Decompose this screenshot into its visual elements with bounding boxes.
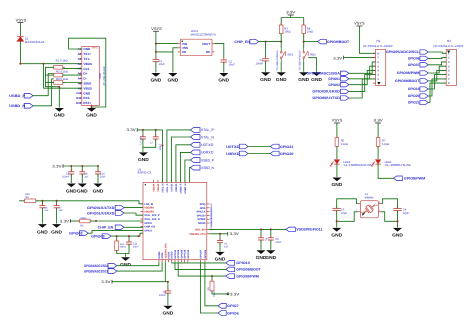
svg-text:A4: A4 xyxy=(78,62,82,66)
svg-text:XTAL_P: XTAL_P xyxy=(166,183,169,192)
svg-text:3.3V: 3.3V xyxy=(286,11,296,15)
svg-text:XTAL_N: XTAL_N xyxy=(201,135,214,139)
svg-text:U0RXD: U0RXD xyxy=(175,183,178,191)
mcu U1 label xyxy=(138,167,207,259)
svg-text:GND: GND xyxy=(392,233,403,238)
port GPIO00/U1TXD (H1) xyxy=(312,96,349,100)
svg-text:GPIO07: GPIO07 xyxy=(199,249,202,258)
svg-text:SBU1: SBU1 xyxy=(83,82,92,86)
svg-text:R9 5.1kΩ: R9 5.1kΩ xyxy=(56,78,68,81)
resistor R3 10k xyxy=(279,23,290,36)
svg-text:CE: CE xyxy=(182,50,186,54)
svg-text:3.3V: 3.3V xyxy=(333,57,343,61)
svg-text:3.3V: 3.3V xyxy=(374,119,384,123)
svg-text:3.3V: 3.3V xyxy=(60,220,70,224)
svg-text:GND: GND xyxy=(77,189,88,194)
svg-text:SHELL: SHELL xyxy=(92,47,100,50)
resistor R8 10k xyxy=(207,276,216,297)
port GPIO01/U1RXD (mcu left) xyxy=(87,211,124,216)
ground (U9) xyxy=(256,250,267,260)
svg-text:USBD_P: USBD_P xyxy=(9,94,26,98)
svg-text:40MHz: 40MHz xyxy=(365,196,374,200)
svg-text:GPIO04/ADC1/SDA: GPIO04/ADC1/SDA xyxy=(306,72,340,76)
ground (U8) xyxy=(77,184,88,194)
svg-text:GND: GND xyxy=(260,77,271,82)
wire XTAL_P to mcu xyxy=(167,130,191,183)
wire GPIO7 row xyxy=(205,262,218,306)
port GPIO04/ADC1/SDA (H1) xyxy=(306,71,349,75)
svg-text:USBD_P: USBD_P xyxy=(179,183,182,193)
port XTAL_N (mcu top) xyxy=(190,135,214,140)
wire GPIO09/BOOT to H2 xyxy=(428,70,446,81)
svg-text:D+: D+ xyxy=(83,72,87,76)
resistor R9 5.1k xyxy=(52,78,69,84)
wire VBUS diode to connector xyxy=(19,41,81,64)
wire GPIO06 to H2 xyxy=(428,57,446,60)
svg-text:GPIO21: GPIO21 xyxy=(408,101,420,105)
svg-text:3.3V: 3.3V xyxy=(230,232,240,236)
svg-text:VBUS: VBUS xyxy=(83,86,92,90)
svg-text:HC-PZ254-8.7L-1X8PZ: HC-PZ254-8.7L-1X8PZ xyxy=(363,45,393,48)
wire R3 to SW1 xyxy=(280,34,282,48)
wire U0RXD link xyxy=(248,153,270,155)
power flag VSYS (H1) xyxy=(354,22,375,54)
svg-text:VDD_SPI: VDD_SPI xyxy=(195,228,206,231)
wire R4 to SW2 xyxy=(303,34,305,48)
svg-text:B11: B11 xyxy=(76,96,81,100)
svg-text:H1: H1 xyxy=(376,39,380,43)
wire resistor commons to ground xyxy=(45,67,60,107)
svg-text:GND: GND xyxy=(37,230,48,235)
wire crystal pin3 to C4 xyxy=(381,199,398,209)
svg-text:LNA_IN: LNA_IN xyxy=(144,203,153,206)
capacitor C7 100nF xyxy=(143,129,162,152)
svg-text:GPIO10: GPIO10 xyxy=(408,87,420,91)
wire U0TXD to mcu xyxy=(176,145,191,183)
led LED2 XL-1608SURC-06 xyxy=(330,160,372,168)
svg-text:3.3V: 3.3V xyxy=(101,280,111,284)
wire SW2 second pole to ground xyxy=(308,58,316,72)
wire VDD3P3_CPU net xyxy=(209,233,227,235)
port GPIO02 (H1) xyxy=(328,83,349,87)
resistor R11 560R xyxy=(115,236,126,253)
wire RTC pin down xyxy=(165,262,169,283)
svg-text:GPIO21: GPIO21 xyxy=(280,145,294,149)
wire GPIO00/U1TXD to H1 xyxy=(349,79,376,98)
svg-text:GND: GND xyxy=(86,113,97,118)
svg-text:TX1-: TX1- xyxy=(83,57,90,61)
svg-text:XTAL_N: XTAL_N xyxy=(161,183,164,192)
svg-text:GPIO8/PWM: GPIO8/PWM xyxy=(404,177,426,181)
svg-text:GND: GND xyxy=(332,182,343,187)
svg-text:10nF: 10nF xyxy=(133,246,139,249)
wire VSS to ground xyxy=(172,52,174,73)
port GPIO21 (link) xyxy=(270,144,293,149)
wire C4 to ground xyxy=(397,211,399,228)
svg-text:R6: R6 xyxy=(80,225,84,228)
svg-text:GPIO17: GPIO17 xyxy=(210,222,213,231)
wire U1RXD to mcu xyxy=(124,213,143,215)
svg-text:TS-1088-AR02016: TS-1088-AR02016 xyxy=(276,50,279,71)
svg-text:SW1: SW1 xyxy=(287,53,294,57)
svg-text:VDD3A: VDD3A xyxy=(152,183,155,191)
svg-text:TS-1088-AR02016: TS-1088-AR02016 xyxy=(299,50,302,71)
svg-text:A2: A2 xyxy=(78,52,82,56)
svg-text:R2 5.1kΩ: R2 5.1kΩ xyxy=(56,71,68,74)
resistor R4 10k xyxy=(302,23,313,36)
wire crystal pin1 to C5 bottom xyxy=(337,212,358,222)
svg-text:10kΩ: 10kΩ xyxy=(307,31,313,34)
capacitor U7 1uF xyxy=(54,201,64,224)
wire VDD_SPI to port xyxy=(209,228,286,230)
wire C5 to ground xyxy=(336,211,338,228)
wire LED2 to ground xyxy=(336,164,338,177)
port CHIP_EN (buttons) xyxy=(234,39,258,44)
wire GPIO6 row xyxy=(200,262,218,313)
svg-text:GND: GND xyxy=(151,78,162,83)
power flag 3.3V (buttons) xyxy=(286,11,296,18)
svg-text:3.3V: 3.3V xyxy=(52,164,62,168)
svg-text:SPICS0: SPICS0 xyxy=(197,214,207,217)
svg-text:U0RXD: U0RXD xyxy=(201,151,214,155)
svg-text:GND: GND xyxy=(93,189,104,194)
wire GPIO04/ADC1/SDA to H1 xyxy=(349,62,376,73)
port U0RXD (link) xyxy=(226,151,248,156)
port U0RXD (mcu top) xyxy=(190,150,213,155)
svg-text:1uF: 1uF xyxy=(84,176,89,179)
wire SW2 to ground xyxy=(303,62,305,72)
port U0TXD (link) xyxy=(226,144,248,149)
svg-text:GPIO2: GPIO2 xyxy=(144,222,152,225)
capacitor C1 10uF xyxy=(153,57,165,73)
svg-text:RX1+: RX1+ xyxy=(83,101,91,105)
svg-text:BAT60JFILM: BAT60JFILM xyxy=(25,40,45,44)
svg-text:GPIO19: GPIO19 xyxy=(187,249,190,258)
svg-text:ESP32-C3: ESP32-C3 xyxy=(138,171,152,175)
ground (SW1) xyxy=(276,72,287,82)
port USBD_P (mcu top) xyxy=(190,158,214,163)
svg-text:SPICLK: SPICLK xyxy=(196,211,205,214)
svg-text:GND: GND xyxy=(218,78,229,83)
port GPIO8/PWM (LED1) xyxy=(393,176,425,181)
port GPIO03 (mcu left) xyxy=(91,234,111,239)
svg-text:10uF: 10uF xyxy=(100,176,106,179)
svg-text:U0TXD: U0TXD xyxy=(226,145,240,149)
svg-text:VSYS: VSYS xyxy=(354,22,365,26)
wire GPIO10 to H2 xyxy=(428,75,446,89)
svg-text:10uF: 10uF xyxy=(159,63,165,66)
svg-text:U0RXD: U0RXD xyxy=(226,152,240,156)
power flag 3.3V (LED1) xyxy=(374,119,384,138)
power flag VSYS (LED2) xyxy=(332,119,343,138)
wire CC1 row to R1 xyxy=(63,68,82,70)
svg-text:1uF: 1uF xyxy=(224,246,229,249)
port GPIO07 (H2) xyxy=(408,63,428,67)
svg-text:100nF: 100nF xyxy=(255,62,263,65)
capacitor C5 10pF xyxy=(333,206,348,215)
svg-text:10pF: 10pF xyxy=(341,212,347,215)
svg-text:GPIO02: GPIO02 xyxy=(328,83,340,87)
wire GPIO01 to H1 xyxy=(349,66,376,79)
ground (LED2) xyxy=(332,178,343,188)
switch SW1 xyxy=(276,48,294,70)
wire GPIO8 row xyxy=(178,262,226,277)
svg-text:GPIO06: GPIO06 xyxy=(408,57,420,61)
svg-text:U0TXD: U0TXD xyxy=(170,183,173,191)
port GPIO08/PWM (mcu bottom) xyxy=(226,274,259,279)
svg-text:560Ω: 560Ω xyxy=(120,246,126,249)
svg-text:GPIO05/ADC2/SCL: GPIO05/ADC2/SCL xyxy=(386,50,420,54)
port GPIO01 (H1) xyxy=(328,77,349,81)
svg-text:A7: A7 xyxy=(78,77,82,81)
port GPIO10 (H2) xyxy=(408,87,428,91)
header H1 pins xyxy=(363,39,393,86)
power flag 3.3V (RTC) xyxy=(101,280,168,284)
ground (U4 C7) xyxy=(138,152,149,162)
svg-text:VSYS: VSYS xyxy=(151,27,162,31)
ground (SW2 pole2) xyxy=(311,72,322,82)
ground (SW2) xyxy=(298,72,309,82)
resistor R7 5.1k xyxy=(376,136,389,149)
port GPIO09/BOOT (mcu bottom) xyxy=(226,267,262,272)
wire GPIO20 to H2 xyxy=(428,79,446,96)
svg-text:GND: GND xyxy=(215,257,226,262)
capacitor C11 10nF xyxy=(126,236,140,257)
port GPIO7 (mcu bottom) xyxy=(218,304,239,309)
svg-text:HC-PZ254-8.7L-1X8PZ: HC-PZ254-8.7L-1X8PZ xyxy=(434,45,464,48)
wire U0RXD to mcu xyxy=(180,152,191,182)
ground (C9) xyxy=(66,184,77,194)
svg-text:100nF: 100nF xyxy=(62,176,70,179)
capacitor C8 10uF xyxy=(268,229,282,249)
resistor R1 5.1k xyxy=(52,59,68,69)
port CHIP_EN (mcu left) xyxy=(98,225,124,230)
capacitor C2 10uF xyxy=(221,57,236,72)
wire GPIO9 row xyxy=(175,262,226,269)
svg-text:XTAL_32K_P: XTAL_32K_P xyxy=(144,214,160,217)
power flag VSYS (USB input) xyxy=(16,18,27,36)
svg-text:SPIQ: SPIQ xyxy=(200,203,206,206)
svg-text:GPIO08/PWM: GPIO08/PWM xyxy=(236,274,259,278)
svg-text:GPIO01/U1RXD: GPIO01/U1RXD xyxy=(87,211,115,215)
capacitor U6 1uF xyxy=(39,201,49,224)
svg-text:GND: GND xyxy=(51,230,62,235)
svg-text:GND: GND xyxy=(138,157,149,162)
svg-text:10kΩ: 10kΩ xyxy=(80,217,86,220)
power flag 3.3V (mcu top) xyxy=(127,128,163,132)
svg-text:GPIO04/ADC1/SDA: GPIO04/ADC1/SDA xyxy=(84,264,109,268)
power flag 3.3V (R6) xyxy=(60,219,80,223)
svg-text:GND: GND xyxy=(83,91,91,95)
wire GPIO02 to mcu xyxy=(88,230,143,233)
port GPIO09/BOOT (H2) xyxy=(395,79,428,83)
svg-text:A8: A8 xyxy=(78,81,82,85)
wire CHIP_EN to SW1 xyxy=(259,41,283,43)
svg-text:1uF: 1uF xyxy=(59,209,64,212)
svg-text:XL-1608SYG-04: XL-1608SYG-04 xyxy=(385,163,412,167)
wire D+ row to R2 xyxy=(63,74,82,76)
resistor R10 0R (antenna) xyxy=(19,193,38,203)
port GPIO9/BOOT (button SW2) xyxy=(304,39,350,44)
led LED1 XL-1608SYG-04 xyxy=(371,160,411,168)
ground (C3) xyxy=(260,72,271,82)
wire GPIO03/U1RXD to H1 xyxy=(349,75,376,92)
svg-text:VDD3P3: VDD3P3 xyxy=(144,210,154,213)
ground (LDO VSS) xyxy=(168,73,179,83)
wire VOUT to C2 xyxy=(214,44,223,58)
ground (usb shield) xyxy=(86,108,97,118)
port GPIO21 (H2) xyxy=(408,100,428,104)
svg-text:GND: GND xyxy=(54,113,65,118)
ground (usb resistors) xyxy=(54,108,65,118)
svg-text:VOUT: VOUT xyxy=(202,42,211,46)
port XTAL_P (mcu top) xyxy=(190,128,214,133)
wire SCL to mcu xyxy=(117,262,162,271)
wire GPIO05/ADC2/SCL to H2 xyxy=(428,52,446,53)
svg-text:GPIO03/U1RXD: GPIO03/U1RXD xyxy=(312,90,340,94)
svg-text:GND: GND xyxy=(168,78,179,83)
wire 3.3V rail to R3 R4 xyxy=(281,18,304,26)
wire U0TXD link xyxy=(248,146,270,148)
mcu U1 right pins xyxy=(189,203,212,236)
svg-text:VDDSPI/GPIO11: VDDSPI/GPIO11 xyxy=(296,228,322,232)
ground (C1) xyxy=(151,73,162,83)
svg-text:GPIO10: GPIO10 xyxy=(236,261,250,265)
ground (U7) xyxy=(51,224,62,235)
wire SDA to mcu xyxy=(117,262,159,266)
svg-text:GPIO09/BOOT: GPIO09/BOOT xyxy=(395,79,420,83)
capacitor C4 10pF xyxy=(393,206,409,215)
wire VBUS2 row xyxy=(43,63,82,88)
wire USBD_N to D- xyxy=(33,79,54,106)
power flag 3.3V (C9 row) xyxy=(52,164,98,168)
svg-text:GPIO00/U1TXD: GPIO00/U1TXD xyxy=(312,96,340,100)
svg-text:U0TXD: U0TXD xyxy=(201,143,214,147)
resistor R5 5.1k xyxy=(335,136,348,149)
usb connector USB1 pins xyxy=(76,47,92,105)
capacitor C10 10uF xyxy=(95,165,106,183)
svg-text:SW2: SW2 xyxy=(310,53,317,57)
svg-text:A3: A3 xyxy=(78,57,82,61)
wire SBU row to R9 xyxy=(63,82,82,84)
switch SW2 xyxy=(299,48,317,70)
svg-text:GPIO05/ADC2/SCL: GPIO05/ADC2/SCL xyxy=(84,269,109,273)
wire GPIO10 row xyxy=(172,261,226,264)
capacitor U9 1uF xyxy=(258,229,269,249)
mcu U1 top pins xyxy=(152,180,187,194)
port GPIO01/U1TXD (mcu left) xyxy=(87,205,124,210)
svg-text:R1 5.1kΩ: R1 5.1kΩ xyxy=(56,59,68,62)
svg-text:CHIP_EN: CHIP_EN xyxy=(144,226,155,229)
svg-text:XTAL_32K_N: XTAL_32K_N xyxy=(144,218,160,221)
svg-text:3.3V: 3.3V xyxy=(127,128,137,132)
capacitor C9 100nF xyxy=(62,165,74,183)
wire crystal pin2 to C4 bottom xyxy=(381,212,398,222)
svg-text:SPIHD: SPIHD xyxy=(198,222,206,225)
port GPIO04/ADC1/SDA (mcu bottom) xyxy=(84,263,117,268)
svg-text:B10: B10 xyxy=(76,101,82,105)
svg-text:VDD3P3_CPU: VDD3P3_CPU xyxy=(189,233,206,236)
power flag VSYS (LDO) xyxy=(151,27,162,60)
wire USBD_N to mcu xyxy=(189,168,191,183)
port GPIO06 (H2) xyxy=(408,56,428,60)
wire VSYS to VIN xyxy=(155,43,178,45)
wire GPIO21 to H2 xyxy=(428,83,446,102)
ground (C10) xyxy=(93,184,104,194)
port GPIO03/U1RXD (H1) xyxy=(312,89,349,93)
svg-text:GND: GND xyxy=(163,310,174,315)
svg-text:A12: A12 xyxy=(76,91,82,95)
svg-text:CHIP_EN: CHIP_EN xyxy=(98,226,114,230)
svg-text:5.1kΩ: 5.1kΩ xyxy=(382,143,389,146)
svg-text:VDD3A: VDD3A xyxy=(157,183,160,191)
port VDDSPI/GPIO11 xyxy=(286,227,323,232)
svg-text:GPIO08/PWM: GPIO08/PWM xyxy=(397,71,420,75)
svg-text:D-: D- xyxy=(83,77,86,81)
wire 3.3V down to VDD3A pin xyxy=(161,130,163,183)
svg-text:1uF: 1uF xyxy=(44,209,49,212)
svg-text:GND: GND xyxy=(331,233,342,238)
power flag 3.3V (CPU) xyxy=(228,232,240,236)
ground (C4) xyxy=(392,228,403,238)
svg-text:GPIO3: GPIO3 xyxy=(144,229,152,232)
capacitor U5 1uF xyxy=(217,234,229,252)
port GPIO05/ADC2/SCL (mcu bottom) xyxy=(84,269,117,274)
svg-text:GPIO02: GPIO02 xyxy=(69,232,83,236)
svg-text:GPIO03: GPIO03 xyxy=(91,234,105,238)
svg-text:USBD_N: USBD_N xyxy=(184,183,187,193)
mcu U1 bottom pins xyxy=(158,243,207,263)
wire LED1 to port xyxy=(378,164,393,178)
wire R6 to mcu (chip_en net) xyxy=(90,220,143,222)
port GPIO6 (mcu bottom) xyxy=(218,311,239,316)
svg-text:GND: GND xyxy=(265,255,276,260)
svg-text:VDD3P3: VDD3P3 xyxy=(144,207,154,210)
ground (U6) xyxy=(37,224,48,235)
capacitor C3 100nF xyxy=(255,42,269,72)
usb connector USB1 body xyxy=(82,47,106,106)
svg-text:VSYS: VSYS xyxy=(16,18,27,22)
capacitor U8 1uF xyxy=(79,165,89,183)
port USBD_N (mcu top) xyxy=(190,165,214,170)
svg-text:0Ω: 0Ω xyxy=(25,196,28,199)
svg-text:GPIO06: GPIO06 xyxy=(204,249,207,258)
wire USBD_P to D+ xyxy=(33,74,54,96)
wire GPIO08/PWM to H2 xyxy=(428,66,446,73)
svg-text:USB1: USB1 xyxy=(99,72,102,79)
svg-text:CHIP_EN: CHIP_EN xyxy=(234,40,250,44)
svg-text:USBD_N: USBD_N xyxy=(201,166,214,170)
svg-text:GPIO6: GPIO6 xyxy=(227,311,239,315)
wire LNA_IN xyxy=(36,200,143,204)
svg-text:GND: GND xyxy=(66,189,77,194)
ground (C8) xyxy=(265,250,276,260)
svg-text:10uF: 10uF xyxy=(229,64,235,67)
ground (R11 C11) xyxy=(120,257,131,267)
svg-text:10uF: 10uF xyxy=(275,241,281,244)
svg-text:VBUS: VBUS xyxy=(83,62,92,66)
wire GPIO03 net xyxy=(111,233,143,237)
svg-text:GND: GND xyxy=(298,77,309,82)
svg-text:USBD_P: USBD_P xyxy=(201,158,215,162)
svg-text:RX1-: RX1- xyxy=(83,96,90,100)
svg-text:GPIO01/U1TXD: GPIO01/U1TXD xyxy=(87,206,115,210)
svg-text:XTAL_P: XTAL_P xyxy=(201,128,215,132)
ground (C5) xyxy=(331,228,342,238)
svg-text:GPIO20: GPIO20 xyxy=(280,152,294,156)
svg-text:GND: GND xyxy=(83,47,91,51)
port GPIO20 (link) xyxy=(270,151,293,156)
